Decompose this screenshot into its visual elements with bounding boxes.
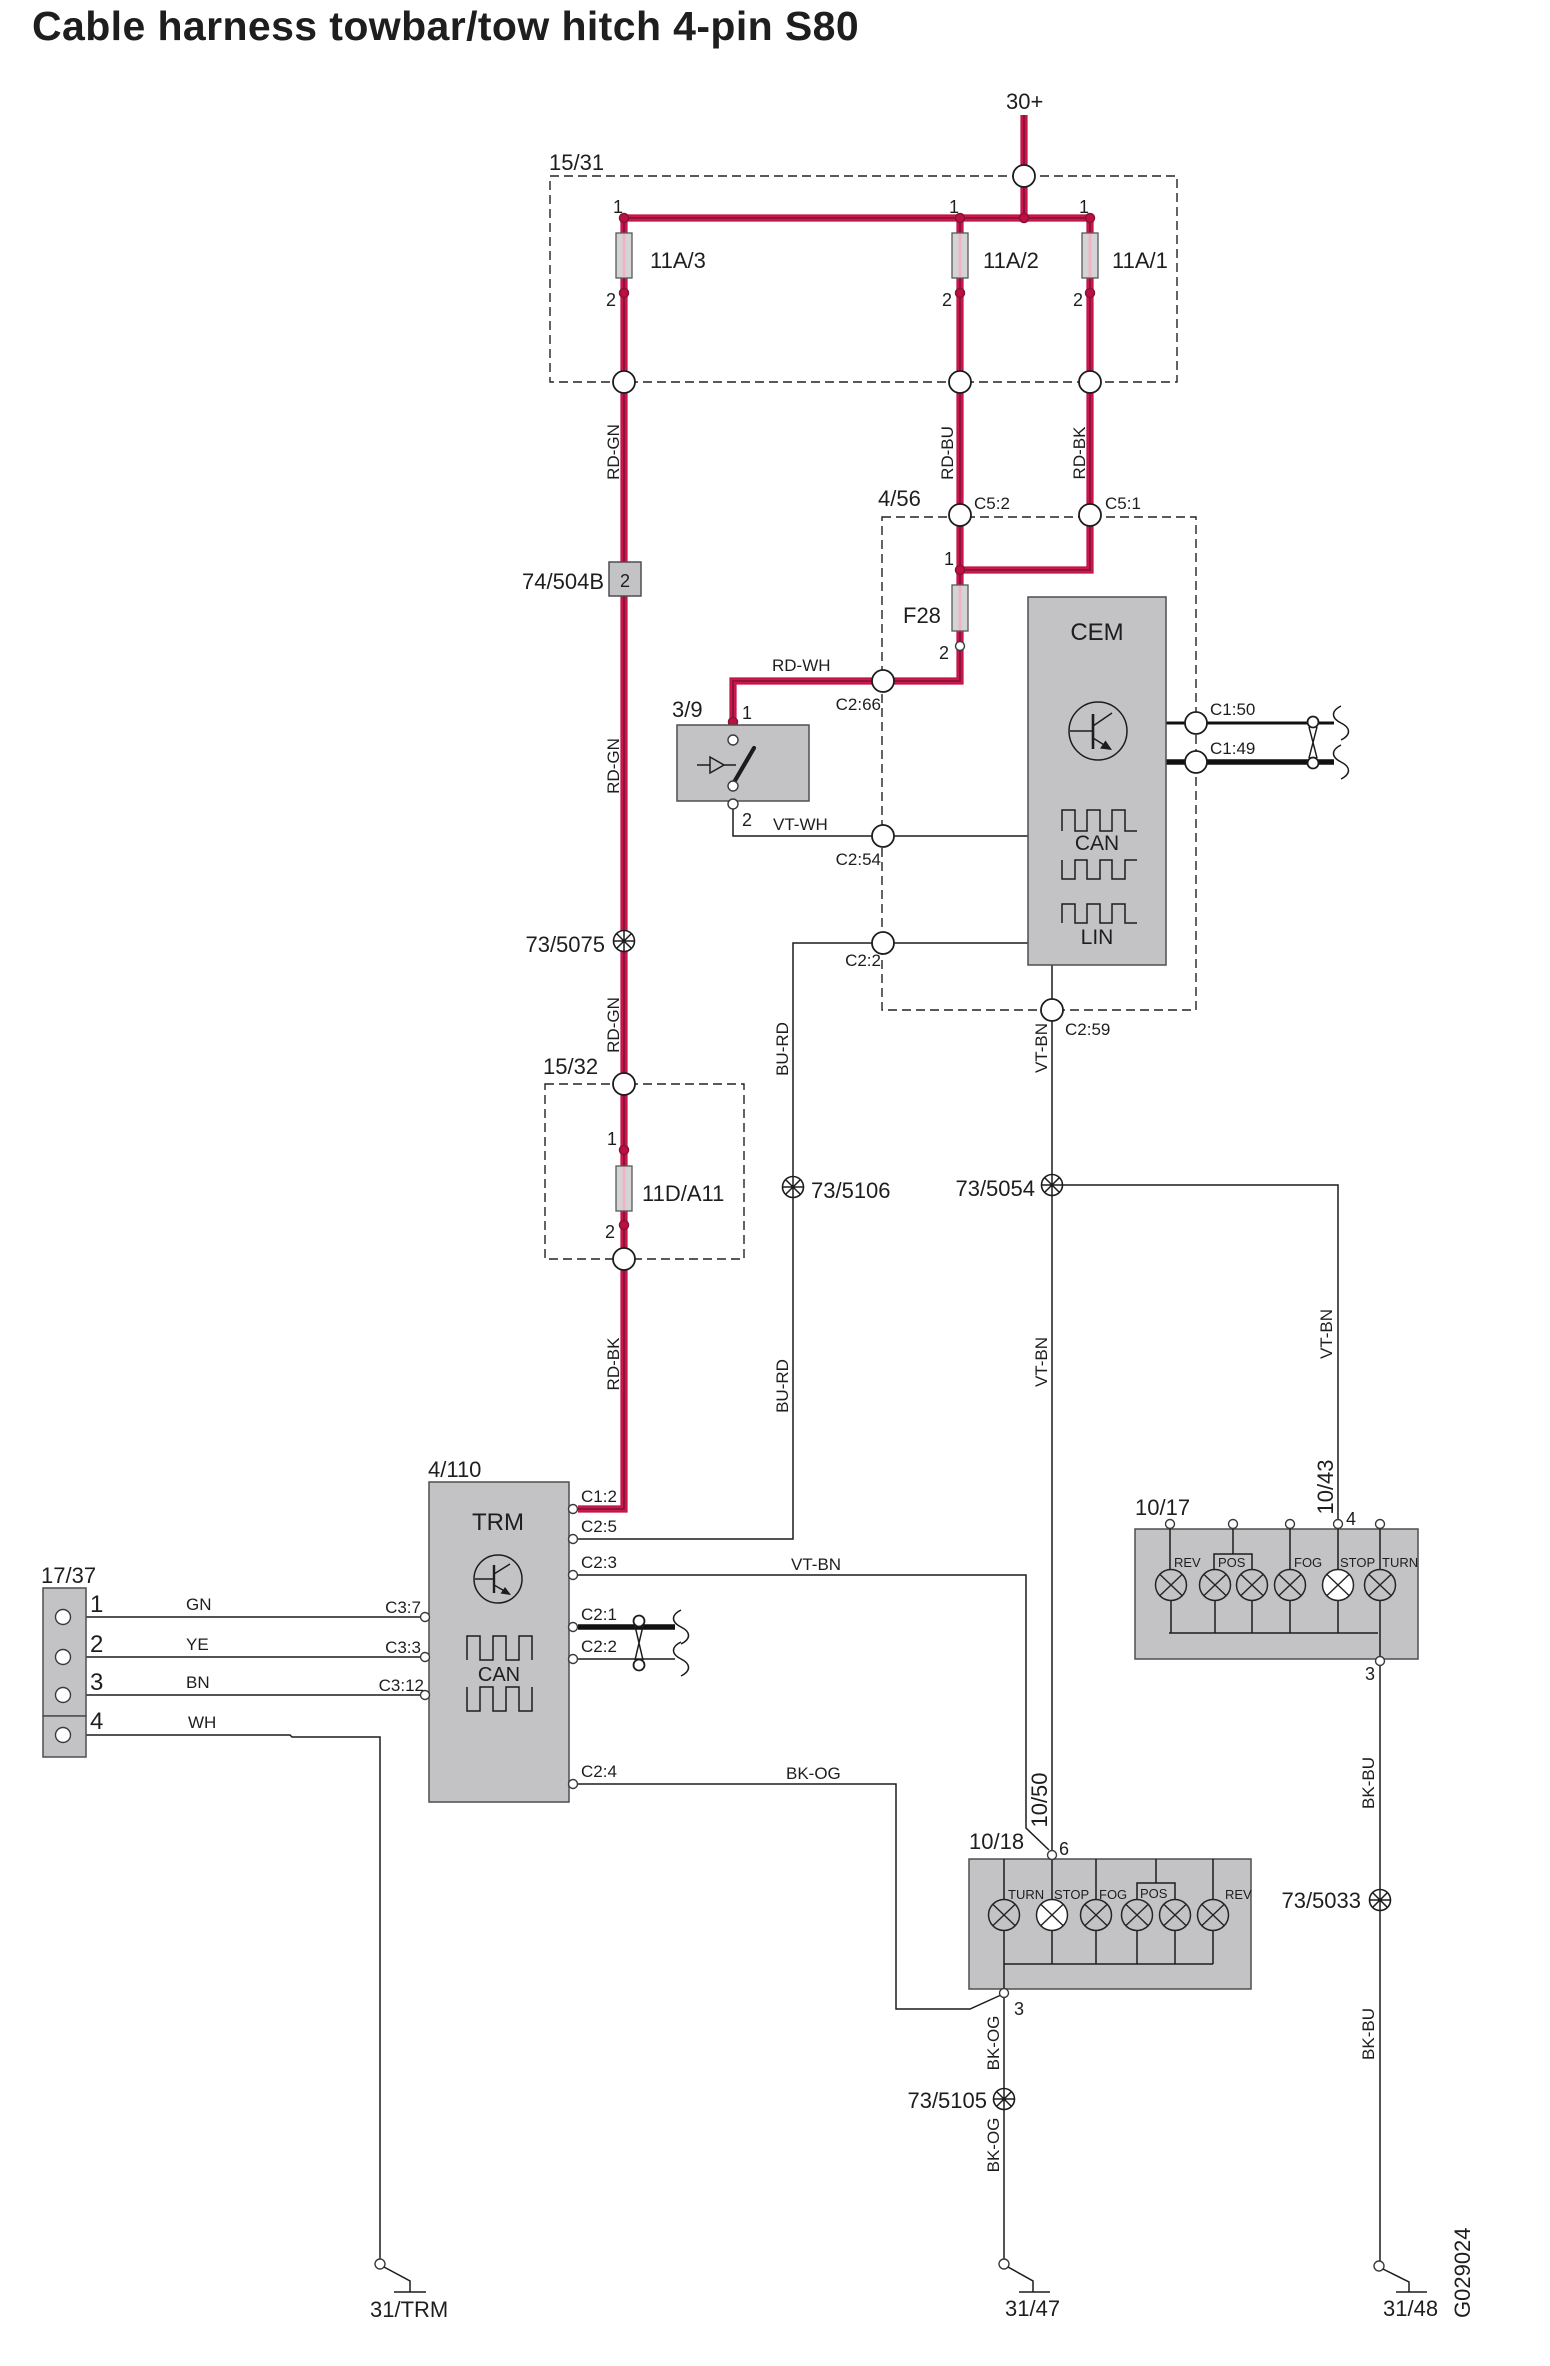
svg-text:C5:1: C5:1 bbox=[1105, 494, 1141, 513]
svg-text:WH: WH bbox=[188, 1713, 216, 1732]
svg-text:1: 1 bbox=[949, 197, 959, 217]
CEM transistor symbol bbox=[1069, 702, 1127, 760]
splice 73/5075 bbox=[614, 931, 635, 952]
wire VT-BN from TRM C2:3 via connector 10/50 to 10/18 pin 6 bbox=[578, 1575, 1049, 1850]
svg-text:C1:50: C1:50 bbox=[1210, 700, 1255, 719]
svg-text:GN: GN bbox=[186, 1595, 212, 1614]
svg-text:C5:2: C5:2 bbox=[974, 494, 1010, 513]
svg-text:2: 2 bbox=[942, 290, 952, 310]
wire YE from 17/37 pin 2 to TRM C3:3 bbox=[71, 1656, 421, 1658]
lamp REV in 10/18 bbox=[1198, 1900, 1229, 1931]
svg-text:2: 2 bbox=[1073, 290, 1083, 310]
svg-text:10/50: 10/50 bbox=[1027, 1772, 1052, 1827]
wire VT-WH from switch 3/9 pin 2 through C2:54 into CEM bbox=[733, 809, 1028, 836]
svg-text:TRM: TRM bbox=[472, 1509, 524, 1536]
break symbol on C1:49 line bbox=[1334, 745, 1349, 779]
svg-text:Cable harness towbar/tow hitch: Cable harness towbar/tow hitch 4-pin S80 bbox=[32, 3, 859, 49]
break symbol on TRM C2:1 line bbox=[674, 1610, 689, 1644]
lamp POS right in 10/18 bbox=[1160, 1900, 1191, 1931]
lamp FOG in 10/17 bbox=[1275, 1570, 1306, 1601]
switch 3/9 lever bbox=[733, 748, 754, 784]
lamp TURN in 10/17 bbox=[1365, 1570, 1396, 1601]
fusebox 15/32 dashed enclosure bbox=[545, 1084, 744, 1259]
svg-text:FOG: FOG bbox=[1294, 1555, 1322, 1570]
svg-text:73/5106: 73/5106 bbox=[811, 1178, 891, 1203]
wire 30+ supply feed (red) bbox=[1020, 115, 1027, 218]
svg-text:74/504B: 74/504B bbox=[522, 569, 604, 594]
fuse 11D/A11 bbox=[616, 1166, 632, 1211]
connector circle 11A/2 exit of 15/31 bbox=[949, 371, 971, 393]
svg-text:10/43: 10/43 bbox=[1313, 1459, 1338, 1514]
svg-text:C3:7: C3:7 bbox=[385, 1598, 421, 1617]
svg-text:YE: YE bbox=[186, 1635, 209, 1654]
svg-text:C3:3: C3:3 bbox=[385, 1638, 421, 1657]
connector 17/37 body lower bbox=[43, 1716, 86, 1757]
twisted pair symbol on TRM CAN lines bbox=[634, 1616, 645, 1671]
splice 73/5054 bbox=[1042, 1175, 1063, 1196]
connector circle 15/32 bottom exit bbox=[613, 1248, 635, 1270]
svg-text:4: 4 bbox=[90, 1708, 103, 1735]
wire CEM C1:49 CAN line (thick) bbox=[1166, 759, 1334, 765]
connector 17/37 pin 4 circle bbox=[56, 1728, 71, 1743]
svg-text:10/17: 10/17 bbox=[1135, 1495, 1190, 1520]
wire RD-BK from fuse 11A/1 down through C5:1 to F28 pin 1 (red) bbox=[960, 218, 1090, 570]
svg-text:BK-OG: BK-OG bbox=[984, 2016, 1003, 2071]
switch 3/9 trigger symbol bbox=[697, 757, 736, 773]
connector circle C2:2 on CEM edge bbox=[872, 932, 894, 954]
svg-text:G029024: G029024 bbox=[1450, 2227, 1475, 2318]
svg-text:15/31: 15/31 bbox=[549, 150, 604, 175]
junction dot 11A/2 pin 2 bbox=[956, 289, 965, 298]
CEM CAN square wave lower bbox=[1062, 860, 1137, 879]
10/18 internal feed wires bbox=[1004, 1857, 1213, 1899]
TRM pin circle C3:3 bbox=[421, 1653, 430, 1662]
svg-text:REV: REV bbox=[1174, 1555, 1201, 1570]
fuse F28 bbox=[952, 585, 968, 631]
10/18 pin 6 circle bbox=[1048, 1851, 1057, 1860]
lamp POS left in 10/17 bbox=[1200, 1570, 1231, 1601]
ground 31/TRM symbol bbox=[375, 2259, 426, 2292]
wire TRM C2:2 CAN line bbox=[578, 1658, 675, 1660]
wire TRM C2:1 CAN line (thick) bbox=[578, 1624, 675, 1630]
lamp cluster 10/17 box bbox=[1135, 1529, 1418, 1659]
svg-text:3: 3 bbox=[1365, 1664, 1375, 1684]
connector 17/37 pin 3 circle bbox=[56, 1688, 71, 1703]
connector 74/504B gray square bbox=[609, 562, 641, 596]
svg-text:POS: POS bbox=[1218, 1555, 1246, 1570]
svg-text:30+: 30+ bbox=[1006, 89, 1043, 114]
wire RD-GN / RD-BK trunk from fuse 11A/3 down to TRM C1:2 (red) bbox=[578, 218, 624, 1509]
svg-text:BN: BN bbox=[186, 1673, 210, 1692]
svg-text:TURN: TURN bbox=[1008, 1887, 1044, 1902]
connector circle C2:54 bbox=[872, 825, 894, 847]
svg-text:1: 1 bbox=[944, 549, 954, 569]
wire BK-BU from 10/17 pin 3 through 73/5033 to ground 31/48 bbox=[1379, 1665, 1381, 2261]
break symbol on C1:50 line bbox=[1334, 706, 1349, 740]
svg-text:VT-BN: VT-BN bbox=[791, 1555, 841, 1574]
wire RD-BU from fuse 11A/2 down to F28 pin 1 (red) bbox=[956, 218, 963, 570]
svg-text:BK-OG: BK-OG bbox=[984, 2118, 1003, 2173]
switch 3/9 lower contact bbox=[728, 781, 738, 791]
svg-text:VT-BN: VT-BN bbox=[1032, 1023, 1051, 1073]
svg-text:RD-WH: RD-WH bbox=[772, 656, 831, 675]
svg-text:C1:49: C1:49 bbox=[1210, 739, 1255, 758]
wire RD-WH from F28 pin 2 through C2:66 to switch 3/9 pin 1 (red) bbox=[733, 570, 960, 737]
svg-text:31/47: 31/47 bbox=[1005, 2296, 1060, 2321]
10/18 pin 3 circle bbox=[1000, 1989, 1009, 1998]
control module TRM box bbox=[429, 1482, 569, 1802]
svg-text:4/56: 4/56 bbox=[878, 486, 921, 511]
break symbol on TRM C2:2 line bbox=[674, 1642, 689, 1676]
svg-text:C2:2: C2:2 bbox=[581, 1637, 617, 1656]
junction dot F28 pin 1 bbox=[956, 566, 965, 575]
wire VT-BN branch from 73/5054 to 10/43 pin 4 bbox=[1052, 1185, 1338, 1521]
switch 3/9 pin 2 circle bbox=[728, 799, 738, 809]
svg-text:11A/1: 11A/1 bbox=[1112, 248, 1168, 273]
svg-text:C2:1: C2:1 bbox=[581, 1605, 617, 1624]
TRM transistor symbol bbox=[474, 1555, 522, 1603]
wire CEM C1:50 CAN line bbox=[1166, 722, 1334, 725]
lamp REV in 10/17 bbox=[1156, 1570, 1187, 1601]
splice 73/5106 bbox=[783, 1177, 804, 1198]
connector circle 30+ entry into 15/31 bbox=[1013, 165, 1035, 187]
svg-text:3: 3 bbox=[1014, 1999, 1024, 2019]
svg-text:C1:2: C1:2 bbox=[581, 1487, 617, 1506]
svg-text:STOP: STOP bbox=[1340, 1555, 1375, 1570]
svg-text:BU-RD: BU-RD bbox=[773, 1022, 792, 1076]
svg-text:C2:59: C2:59 bbox=[1065, 1020, 1110, 1039]
TRM CAN square wave lower bbox=[467, 1687, 532, 1711]
wire GN from 17/37 pin 1 to TRM C3:7 bbox=[71, 1616, 421, 1618]
svg-text:2: 2 bbox=[742, 810, 752, 830]
junction dot 11A/2 pin 1 bbox=[956, 214, 965, 223]
TRM pin circle C2:3 bbox=[569, 1571, 578, 1580]
ground 31/47 symbol bbox=[999, 2259, 1050, 2292]
svg-text:11D/A11: 11D/A11 bbox=[642, 1181, 724, 1206]
10/17 top pin circles bbox=[1166, 1520, 1385, 1529]
lamp STOP in 10/18 (white) bbox=[1037, 1900, 1068, 1931]
svg-text:STOP: STOP bbox=[1054, 1887, 1089, 1902]
wire BK-OG from 10/18 pin 3 through 73/5105 to ground 31/47 bbox=[1003, 1997, 1005, 2259]
svg-text:RD-GN: RD-GN bbox=[604, 997, 623, 1053]
svg-text:3/9: 3/9 bbox=[672, 697, 703, 722]
wire BK-OG from TRM C2:4 to 10/18 pin 3 bbox=[578, 1784, 1001, 2009]
twisted pair symbol on CEM CAN lines bbox=[1308, 717, 1319, 769]
10/18 POS bracket bbox=[1137, 1883, 1175, 1899]
svg-text:2: 2 bbox=[939, 643, 949, 663]
svg-text:C2:4: C2:4 bbox=[581, 1762, 617, 1781]
svg-text:2: 2 bbox=[90, 1631, 103, 1658]
TRM pin circle C1:2 bbox=[569, 1505, 578, 1514]
svg-text:2: 2 bbox=[620, 571, 630, 591]
svg-text:73/5054: 73/5054 bbox=[955, 1176, 1035, 1201]
svg-text:C2:66: C2:66 bbox=[836, 695, 881, 714]
svg-text:VT-BN: VT-BN bbox=[1032, 1337, 1051, 1387]
svg-text:VT-BN: VT-BN bbox=[1317, 1309, 1336, 1359]
pin circle F28 pin 2 bbox=[956, 642, 965, 651]
svg-text:BK-BU: BK-BU bbox=[1359, 1757, 1378, 1809]
svg-text:TURN: TURN bbox=[1382, 1555, 1418, 1570]
CEM CAN square wave upper bbox=[1062, 810, 1137, 831]
svg-text:2: 2 bbox=[606, 290, 616, 310]
switch 3/9 upper contact bbox=[728, 735, 738, 745]
lamp POS right in 10/17 bbox=[1237, 1570, 1268, 1601]
wire BU-RD from CEM C2:2 through 73/5106 to TRM C2:5 bbox=[578, 943, 1028, 1539]
svg-text:POS: POS bbox=[1140, 1886, 1168, 1901]
svg-text:F28: F28 bbox=[903, 603, 941, 628]
svg-text:15/32: 15/32 bbox=[543, 1054, 598, 1079]
svg-text:C3:12: C3:12 bbox=[379, 1676, 424, 1695]
svg-text:FOG: FOG bbox=[1099, 1887, 1127, 1902]
svg-text:3: 3 bbox=[90, 1669, 103, 1696]
TRM pin circle C2:5 bbox=[569, 1535, 578, 1544]
lamp cluster 10/18 box bbox=[969, 1859, 1251, 1989]
10/17 POS bracket bbox=[1214, 1554, 1252, 1570]
TRM pin circle C3:12 bbox=[421, 1691, 430, 1700]
lamp TURN in 10/18 bbox=[989, 1900, 1020, 1931]
TRM pin circle C3:7 bbox=[421, 1613, 430, 1622]
svg-text:CAN: CAN bbox=[1075, 832, 1119, 855]
TRM pin circle C2:1 bbox=[569, 1623, 578, 1632]
switch 3/9 box bbox=[677, 725, 809, 801]
svg-text:73/5105: 73/5105 bbox=[907, 2088, 987, 2113]
TRM pin circle C2:2 bbox=[569, 1655, 578, 1664]
svg-text:11A/3: 11A/3 bbox=[650, 248, 706, 273]
10/17 internal return bus bbox=[1169, 1601, 1380, 1657]
svg-text:RD-BU: RD-BU bbox=[938, 426, 957, 480]
svg-text:1: 1 bbox=[90, 1591, 103, 1618]
CEM unit 4/56 dashed enclosure bbox=[882, 517, 1196, 1010]
svg-text:BK-OG: BK-OG bbox=[786, 1764, 841, 1783]
svg-text:RD-GN: RD-GN bbox=[604, 738, 623, 794]
svg-text:CEM: CEM bbox=[1070, 619, 1123, 646]
connector circle C1:50 bbox=[1185, 712, 1207, 734]
wire link switch contact to pin 2 inside 3/9 bbox=[732, 791, 734, 800]
splice 73/5033 bbox=[1370, 1890, 1391, 1911]
connector circle 15/32 top entry bbox=[613, 1073, 635, 1095]
svg-text:BU-RD: BU-RD bbox=[773, 1359, 792, 1413]
wire WH from 17/37 pin 4 to ground 31/TRM bbox=[71, 1735, 380, 2259]
junction dot 11A/1 pin 2 bbox=[1086, 289, 1095, 298]
10/18 internal return bus bbox=[1004, 1931, 1213, 1990]
10/17 internal feed wires bbox=[1170, 1529, 1380, 1570]
10/17 pin 3 circle bbox=[1376, 1657, 1385, 1666]
ground 31/48 symbol bbox=[1374, 2261, 1427, 2292]
fuse 11A/3 bbox=[616, 233, 632, 278]
wire VT-BN from CEM bottom through C2:59 and 73/5054 to 10/18 pin 6 bbox=[1051, 965, 1053, 1851]
junction dot 11A/1 pin 1 bbox=[1086, 214, 1095, 223]
svg-text:C2:2: C2:2 bbox=[845, 951, 881, 970]
svg-text:C2:5: C2:5 bbox=[581, 1517, 617, 1536]
svg-text:BK-BU: BK-BU bbox=[1359, 2008, 1378, 2060]
svg-text:1: 1 bbox=[607, 1129, 617, 1149]
svg-text:RD-BK: RD-BK bbox=[604, 1337, 623, 1391]
fuse 11A/2 bbox=[952, 233, 968, 278]
connector circle C5:1 bbox=[1079, 504, 1101, 526]
wire BN from 17/37 pin 3 to TRM C3:12 bbox=[71, 1694, 421, 1696]
connector 17/37 pin 1 circle bbox=[56, 1610, 71, 1625]
connector 17/37 body upper bbox=[43, 1588, 86, 1716]
svg-text:REV: REV bbox=[1225, 1887, 1252, 1902]
svg-text:C2:3: C2:3 bbox=[581, 1553, 617, 1572]
svg-text:31/48: 31/48 bbox=[1383, 2296, 1438, 2321]
svg-text:CAN: CAN bbox=[478, 1664, 520, 1686]
junction dot 11D/A11 pin 2 bbox=[620, 1221, 629, 1230]
TRM pin circle C2:4 bbox=[569, 1780, 578, 1789]
connector 17/37 pin 2 circle bbox=[56, 1650, 71, 1665]
svg-text:4: 4 bbox=[1346, 1509, 1356, 1529]
junction dot 11A/3 pin 2 bbox=[620, 289, 629, 298]
svg-text:1: 1 bbox=[742, 703, 752, 723]
svg-text:11A/2: 11A/2 bbox=[983, 248, 1039, 273]
lamp FOG in 10/18 bbox=[1081, 1900, 1112, 1931]
svg-text:C2:54: C2:54 bbox=[836, 850, 881, 869]
svg-text:RD-GN: RD-GN bbox=[604, 424, 623, 480]
svg-text:LIN: LIN bbox=[1081, 926, 1114, 949]
splice 73/5105 bbox=[994, 2089, 1015, 2110]
svg-text:VT-WH: VT-WH bbox=[773, 815, 828, 834]
wire red bus linking fuse pins 1 inside 15/31 bbox=[621, 214, 1093, 221]
connector circle C1:49 bbox=[1185, 751, 1207, 773]
svg-text:1: 1 bbox=[613, 197, 623, 217]
junction dot 11A/3 pin 1 bbox=[620, 214, 629, 223]
connector circle 11A/3 exit of 15/31 bbox=[613, 371, 635, 393]
lamp POS left in 10/18 bbox=[1122, 1900, 1153, 1931]
svg-text:17/37: 17/37 bbox=[41, 1563, 96, 1588]
svg-text:2: 2 bbox=[605, 1222, 615, 1242]
junction dot switch 3/9 pin 1 bbox=[729, 718, 738, 727]
lamp STOP in 10/17 (white) bbox=[1323, 1570, 1354, 1601]
junction dot 11D/A11 pin 1 bbox=[620, 1146, 629, 1155]
connector circle C5:2 bbox=[949, 504, 971, 526]
svg-text:6: 6 bbox=[1059, 1839, 1069, 1859]
svg-text:1: 1 bbox=[1079, 197, 1089, 217]
TRM CAN square wave upper bbox=[467, 1636, 532, 1660]
svg-text:10/18: 10/18 bbox=[969, 1829, 1024, 1854]
control module CEM box bbox=[1028, 597, 1166, 965]
junction dot 30+ tap on bus bbox=[1020, 214, 1029, 223]
svg-text:73/5033: 73/5033 bbox=[1281, 1888, 1361, 1913]
connector circle C2:59 bbox=[1041, 999, 1063, 1021]
svg-text:31/TRM: 31/TRM bbox=[370, 2297, 448, 2322]
svg-text:4/110: 4/110 bbox=[428, 1457, 481, 1482]
CEM LIN square wave bbox=[1062, 904, 1137, 923]
svg-text:73/5075: 73/5075 bbox=[525, 932, 605, 957]
fuse 11A/1 bbox=[1082, 233, 1098, 278]
connector circle C2:66 bbox=[872, 670, 894, 692]
svg-text:RD-BK: RD-BK bbox=[1070, 426, 1089, 480]
fusebox 15/31 dashed enclosure bbox=[550, 176, 1177, 382]
connector circle 11A/1 exit of 15/31 bbox=[1079, 371, 1101, 393]
